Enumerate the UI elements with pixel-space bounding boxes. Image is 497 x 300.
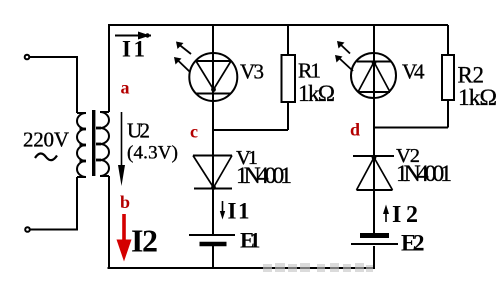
svg-text:V4: V4 [402, 60, 425, 84]
svg-text:(4.3V): (4.3V) [127, 143, 178, 164]
svg-text:1N4001: 1N4001 [236, 163, 292, 189]
svg-text:I1: I1 [228, 199, 250, 224]
svg-text:U2: U2 [127, 119, 150, 143]
svg-text:E1: E1 [240, 228, 261, 253]
svg-text:b: b [120, 192, 130, 212]
svg-text:c: c [190, 122, 198, 142]
svg-text:d: d [350, 120, 360, 140]
svg-text:220V: 220V [23, 128, 69, 152]
svg-text:E2: E2 [401, 231, 425, 256]
svg-text:1N4001: 1N4001 [396, 161, 452, 187]
svg-text:I2: I2 [392, 202, 418, 228]
svg-text:1kΩ: 1kΩ [298, 81, 335, 106]
svg-text:I1: I1 [122, 37, 145, 62]
svg-text:V3: V3 [240, 60, 264, 84]
svg-text:a: a [121, 78, 130, 98]
svg-text:R1: R1 [298, 59, 321, 83]
svg-text:1kΩ: 1kΩ [458, 85, 497, 111]
svg-text:I2: I2 [131, 223, 158, 259]
svg-text:R2: R2 [458, 63, 485, 88]
